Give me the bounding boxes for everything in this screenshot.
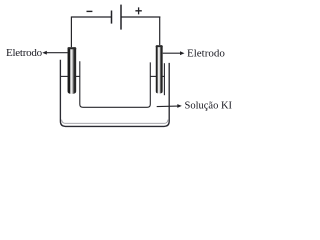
svg-text:Eletrodo: Eletrodo [6,47,43,59]
liquid level inside right tube (left of electrode) [150,75,156,77]
electrode left (shaded bar) [68,47,77,94]
liquid level inside right tube (right of electrode) [162,75,164,77]
electrode right (shaded bar) [156,45,163,93]
battery negative plate (short) [111,11,113,24]
label arrow right Eletrodo (head points right at text) [163,52,181,54]
liquid level inside left tube (right of electrode) [76,75,80,77]
label arrow Solucao KI (head points right at text) [157,105,179,108]
plus sign label [135,7,141,14]
minus sign label [87,10,93,12]
wire top-left horizontal from left corner to battery negative plate [71,16,111,18]
tube left: right wall joining solution-floor U between tubes [80,61,151,107]
wire top-right horizontal from battery positive plate to right corner [121,16,160,18]
beaker outer outline [60,60,169,127]
label arrow left Eletrodo (head points left at text) [46,52,68,54]
electrode right top cap [156,45,163,47]
beaker inner bottom line (glass thickness) [62,120,168,124]
liquid level inside left tube (left of electrode) [60,75,67,77]
wire right vertical down to right electrode [159,17,161,47]
electrode left top cap [68,47,77,49]
svg-text:Solução KI: Solução KI [185,100,233,111]
svg-text:Eletrodo: Eletrodo [187,48,225,60]
tube right: outer right wall [163,63,165,95]
wire left vertical down to left electrode [70,17,72,49]
battery positive plate (long) [120,5,122,30]
